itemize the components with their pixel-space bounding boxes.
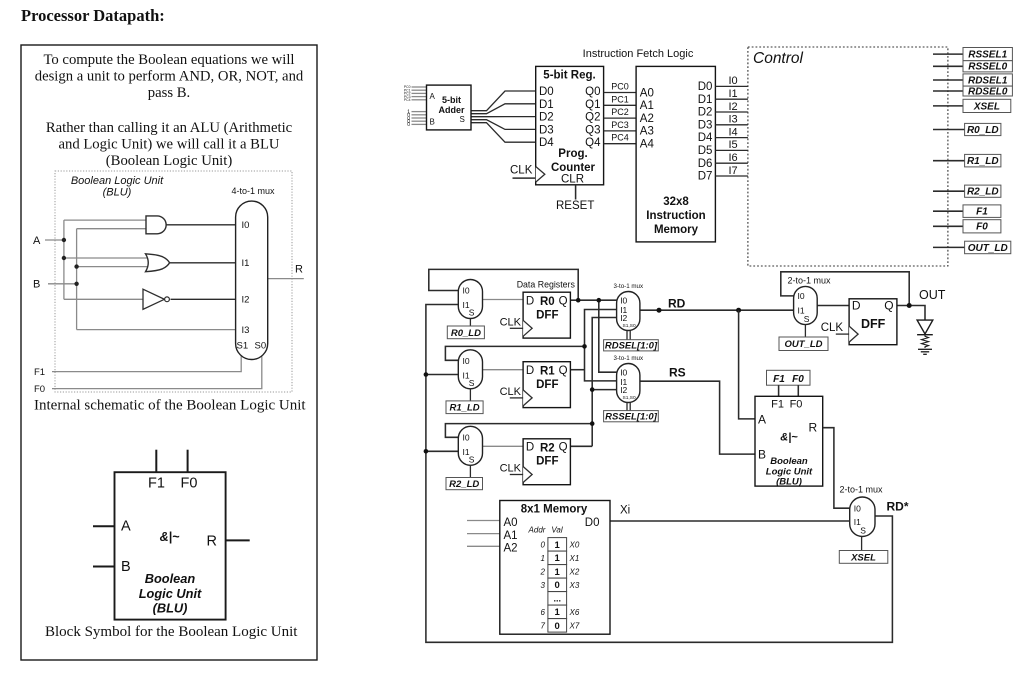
memory cell row 6 bbox=[548, 605, 567, 619]
wire R1 mux to D bbox=[483, 369, 524, 371]
node A junction bbox=[62, 238, 66, 242]
svg-text:6: 6 bbox=[541, 608, 546, 617]
Control dashed box bbox=[748, 47, 948, 266]
svg-text:RSSEL[1:0]: RSSEL[1:0] bbox=[605, 412, 658, 423]
svg-text:I2: I2 bbox=[242, 295, 250, 306]
svg-text:(BLU): (BLU) bbox=[103, 187, 132, 199]
svg-text:3-to-1 mux: 3-to-1 mux bbox=[614, 283, 644, 290]
svg-text:RD*: RD* bbox=[887, 500, 909, 514]
wire B input stub bbox=[48, 283, 77, 285]
wire RD* tap R2 bbox=[426, 450, 458, 452]
svg-text:2: 2 bbox=[540, 567, 546, 576]
RDSEL select double line bbox=[626, 331, 628, 340]
node B-OR junction bbox=[74, 264, 78, 268]
load-enable label XSEL bbox=[839, 551, 888, 564]
svg-text:S1,S0: S1,S0 bbox=[623, 323, 636, 329]
RESET stub bbox=[575, 185, 577, 200]
memory cell row 0 bbox=[548, 538, 567, 552]
svg-text:D1: D1 bbox=[539, 99, 554, 111]
F1 stub bbox=[155, 450, 157, 473]
svg-text:Counter: Counter bbox=[551, 162, 596, 174]
svg-text:(BLU): (BLU) bbox=[153, 601, 188, 616]
wire OUT mux to DFF D bbox=[817, 305, 849, 307]
svg-text:OUT: OUT bbox=[919, 288, 946, 302]
svg-text:S1,S0: S1,S0 bbox=[623, 395, 636, 401]
wire I3 pass-B bbox=[77, 329, 237, 331]
svg-text:D3: D3 bbox=[539, 124, 554, 136]
svg-text:I0: I0 bbox=[463, 286, 470, 296]
5-bit adder U-ADD bbox=[427, 85, 472, 130]
wire RS I2 tap bbox=[592, 389, 616, 391]
wire RS output bbox=[640, 381, 755, 454]
wire F1 select bbox=[52, 356, 241, 372]
load-enable label R0_LD bbox=[447, 326, 484, 339]
block symbol labels bbox=[121, 476, 217, 576]
svg-text:0: 0 bbox=[555, 621, 560, 632]
svg-text:X6: X6 bbox=[569, 608, 580, 617]
svg-text:X1: X1 bbox=[569, 554, 580, 563]
wire R1 feedback loop bbox=[445, 346, 584, 360]
B stub bbox=[93, 566, 115, 568]
F1 F0 stubs bbox=[778, 385, 780, 396]
8x1 Memory block bbox=[500, 501, 610, 635]
svg-text:I7: I7 bbox=[729, 165, 738, 177]
svg-text:PC4: PC4 bbox=[611, 133, 629, 143]
wire R1 bus vertical bbox=[585, 310, 617, 381]
svg-text:CLK: CLK bbox=[510, 165, 533, 177]
svg-text:Adder: Adder bbox=[438, 105, 465, 115]
svg-text:8x1 Memory: 8x1 Memory bbox=[521, 504, 588, 516]
svg-text:2-to-1 mux: 2-to-1 mux bbox=[787, 276, 831, 286]
2-to-1 mux for R0 bbox=[458, 280, 482, 319]
control signal F0 bbox=[933, 225, 963, 227]
D flip-flop R0 bbox=[523, 292, 570, 338]
svg-text:D2: D2 bbox=[698, 107, 713, 119]
wire NOT input bbox=[64, 298, 143, 300]
control signal F1 bbox=[933, 210, 963, 212]
svg-text:RDSEL0: RDSEL0 bbox=[968, 87, 1008, 98]
svg-text:To compute the Boolean equatio: To compute the Boolean equations we will bbox=[43, 52, 294, 68]
control signal XSEL bbox=[933, 105, 963, 107]
svg-text:RSSEL0: RSSEL0 bbox=[968, 62, 1007, 73]
control signal OUT_LD bbox=[933, 246, 965, 248]
svg-text:F1: F1 bbox=[771, 398, 784, 410]
svg-text:CLR: CLR bbox=[561, 174, 584, 186]
wire R0 bus down to RS I0 bbox=[599, 300, 617, 372]
svg-text:B: B bbox=[121, 559, 131, 575]
svg-text:CLK: CLK bbox=[821, 322, 844, 334]
wire Xi memory D0 to XSEL I1 bbox=[610, 520, 850, 522]
node R2 junctions bbox=[590, 421, 595, 426]
svg-text:Prog.: Prog. bbox=[558, 148, 587, 160]
PC wires Q to memory A bbox=[604, 93, 637, 144]
svg-text:I0: I0 bbox=[463, 356, 470, 366]
svg-text:A: A bbox=[121, 519, 131, 535]
svg-text:...: ... bbox=[553, 593, 561, 603]
svg-text:I5: I5 bbox=[729, 139, 738, 151]
D flip-flop R2 bbox=[523, 439, 570, 485]
node R1 junction bbox=[582, 344, 587, 349]
svg-text:DFF: DFF bbox=[536, 379, 558, 391]
node B junction bbox=[74, 282, 78, 286]
svg-text:R0: R0 bbox=[540, 296, 555, 308]
svg-text:CLK: CLK bbox=[500, 386, 522, 398]
svg-text:Data Registers: Data Registers bbox=[517, 280, 576, 290]
svg-text:Xi: Xi bbox=[620, 505, 630, 517]
ground bbox=[918, 348, 932, 350]
svg-text:I4: I4 bbox=[729, 126, 738, 138]
svg-text:D0: D0 bbox=[585, 517, 600, 529]
RSSEL select double line bbox=[626, 403, 628, 411]
svg-text:R1: R1 bbox=[540, 366, 555, 378]
svg-text:0: 0 bbox=[407, 122, 410, 128]
svg-text:D: D bbox=[526, 442, 534, 454]
wire OR output to I1 bbox=[170, 262, 237, 264]
svg-text:S: S bbox=[469, 308, 475, 318]
svg-text:(BLU): (BLU) bbox=[776, 477, 802, 488]
svg-text:3-to-1 mux: 3-to-1 mux bbox=[614, 355, 644, 362]
svg-text:(Boolean Logic Unit): (Boolean Logic Unit) bbox=[106, 153, 233, 169]
resistor zigzag bbox=[922, 335, 929, 348]
adder A input stubs bbox=[412, 87, 427, 100]
svg-text:I0: I0 bbox=[242, 220, 250, 231]
wire RD output bbox=[640, 309, 794, 311]
svg-text:I1: I1 bbox=[242, 258, 250, 269]
svg-text:design a unit to perform AND,: design a unit to perform AND, OR, NOT, a… bbox=[35, 69, 304, 85]
svg-text:Q: Q bbox=[559, 365, 568, 377]
control signal RSSEL1 bbox=[933, 53, 963, 55]
5-bit Reg / Prog Counter bbox=[536, 66, 604, 184]
svg-text:Boolean: Boolean bbox=[145, 571, 196, 586]
svg-text:Boolean Logic Unit: Boolean Logic Unit bbox=[71, 175, 164, 187]
svg-text:D2: D2 bbox=[539, 112, 554, 124]
svg-text:and Logic Unit) we will call i: and Logic Unit) we will call it a BLU bbox=[58, 137, 279, 153]
memory cell row 3 bbox=[548, 578, 567, 592]
wire RD* feedback bus bbox=[426, 305, 893, 643]
svg-text:F1: F1 bbox=[773, 374, 785, 385]
svg-text:B: B bbox=[758, 447, 766, 461]
paragraph 2 bbox=[46, 120, 293, 169]
svg-text:A: A bbox=[758, 412, 766, 426]
memory cell row 7 bbox=[548, 619, 567, 633]
D flip-flop R1 bbox=[523, 362, 570, 408]
wire BLU R to XSEL mux I0 bbox=[823, 428, 850, 509]
svg-text:XSEL: XSEL bbox=[973, 101, 1000, 112]
block symbol BLU box bbox=[115, 472, 226, 619]
svg-text:PC0: PC0 bbox=[611, 82, 629, 92]
svg-text:Val: Val bbox=[551, 526, 562, 535]
svg-text:D6: D6 bbox=[698, 158, 713, 170]
svg-text:X2: X2 bbox=[569, 567, 580, 576]
svg-text:I3: I3 bbox=[729, 114, 738, 126]
paragraph 1 bbox=[35, 52, 304, 101]
wire A input stub bbox=[45, 239, 64, 241]
load-enable label R1_LD bbox=[446, 401, 483, 414]
wire AND top input bbox=[64, 219, 146, 221]
svg-text:Q: Q bbox=[559, 442, 568, 454]
label Boolean Logic Unit (BLU) bbox=[71, 175, 164, 199]
svg-text:32x8: 32x8 bbox=[663, 196, 689, 208]
svg-text:F0: F0 bbox=[792, 374, 804, 385]
svg-text:1: 1 bbox=[555, 553, 561, 564]
svg-text:Rather than calling it an ALU: Rather than calling it an ALU (Arithmeti… bbox=[46, 120, 293, 136]
adder S output fan to register D inputs bbox=[471, 91, 536, 142]
svg-text:F0: F0 bbox=[790, 398, 803, 410]
XSEL stub bbox=[861, 537, 863, 551]
A stub bbox=[93, 525, 115, 527]
svg-text:D3: D3 bbox=[698, 119, 713, 131]
svg-text:S1: S1 bbox=[237, 341, 249, 352]
svg-text:7: 7 bbox=[541, 621, 546, 630]
wire F0 select bbox=[52, 356, 262, 388]
svg-text:S: S bbox=[804, 314, 810, 324]
svg-text:A1: A1 bbox=[504, 530, 518, 542]
svg-text:D0: D0 bbox=[539, 86, 554, 98]
svg-text:DFF: DFF bbox=[536, 456, 558, 468]
svg-text:Processor Datapath:: Processor Datapath: bbox=[21, 6, 165, 25]
memory cell row 2 bbox=[548, 565, 567, 579]
F1 F0 label box bbox=[767, 370, 811, 385]
svg-text:PC3: PC3 bbox=[611, 120, 629, 130]
svg-text:X3: X3 bbox=[569, 581, 580, 590]
node OUT junction bbox=[907, 303, 912, 308]
wire NOT output to I2 bbox=[171, 298, 238, 300]
control signal RDSEL1 bbox=[933, 79, 963, 81]
svg-text:RDSEL[1:0]: RDSEL[1:0] bbox=[605, 341, 658, 352]
memory cell row ellipsis bbox=[548, 592, 567, 606]
wire R2 Q to bus bbox=[570, 445, 592, 447]
load-enable label R2_LD bbox=[446, 478, 483, 490]
OR gate bbox=[146, 254, 170, 272]
svg-text:R1_LD: R1_LD bbox=[450, 403, 480, 414]
svg-text:R2: R2 bbox=[540, 442, 555, 454]
port labels A B R F1 F0 bbox=[33, 235, 303, 291]
svg-text:A: A bbox=[33, 235, 41, 247]
svg-text:4-to-1 mux: 4-to-1 mux bbox=[231, 186, 275, 196]
svg-text:I0: I0 bbox=[854, 503, 861, 513]
wire A vertical bus bbox=[63, 220, 65, 299]
svg-text:Logic Unit: Logic Unit bbox=[139, 586, 202, 601]
LED indicator bbox=[917, 320, 933, 334]
wire R0 feedback loop bbox=[429, 269, 578, 300]
svg-text:Instruction Fetch Logic: Instruction Fetch Logic bbox=[583, 48, 694, 60]
svg-text:A3: A3 bbox=[640, 126, 654, 138]
OUT_LD stub bbox=[804, 325, 806, 337]
svg-text:DFF: DFF bbox=[536, 310, 558, 322]
svg-text:A0: A0 bbox=[640, 87, 654, 99]
svg-text:&|~: &|~ bbox=[160, 530, 181, 544]
wire R2 mux to D bbox=[483, 445, 524, 447]
svg-text:Boolean: Boolean bbox=[770, 456, 808, 467]
svg-text:I0: I0 bbox=[798, 291, 805, 301]
svg-text:Q3: Q3 bbox=[585, 124, 600, 136]
svg-text:R0_LD: R0_LD bbox=[967, 125, 999, 136]
svg-text:Addr: Addr bbox=[528, 526, 546, 535]
control signal R1_LD bbox=[933, 160, 965, 162]
svg-text:F1: F1 bbox=[148, 476, 165, 492]
D flip-flop OUT bbox=[849, 299, 897, 345]
load-enable label OUT_LD bbox=[779, 337, 828, 351]
svg-text:F0: F0 bbox=[34, 384, 45, 395]
svg-text:I0: I0 bbox=[729, 75, 738, 87]
wire AND output to I0 bbox=[166, 224, 237, 226]
svg-text:R2_LD: R2_LD bbox=[967, 187, 999, 198]
wire OR bottom input bbox=[77, 266, 149, 268]
svg-text:R0_LD: R0_LD bbox=[451, 328, 481, 339]
node RD* taps bbox=[424, 372, 429, 377]
node A-OR junction bbox=[62, 256, 66, 260]
left panel frame bbox=[21, 45, 317, 660]
wire AND bottom input bbox=[77, 228, 146, 230]
svg-text:Control: Control bbox=[753, 50, 804, 67]
svg-text:I2: I2 bbox=[620, 313, 627, 323]
svg-text:X0: X0 bbox=[569, 540, 580, 549]
svg-text:B: B bbox=[33, 279, 40, 291]
svg-text:CLK: CLK bbox=[500, 463, 522, 475]
svg-text:pass B.: pass B. bbox=[148, 85, 190, 101]
wire R0 mux to D bbox=[483, 299, 524, 301]
control signal R2_LD bbox=[933, 190, 965, 192]
svg-text:D1: D1 bbox=[698, 94, 713, 106]
svg-text:S: S bbox=[460, 115, 465, 124]
svg-text:0: 0 bbox=[541, 540, 546, 549]
control signal R0_LD bbox=[933, 129, 965, 131]
svg-text:PC1: PC1 bbox=[611, 94, 629, 104]
control signal RSSEL0 bbox=[933, 65, 963, 67]
svg-text:F0: F0 bbox=[181, 476, 198, 492]
NOT gate bbox=[143, 289, 164, 309]
wire OUT feedback loop bbox=[781, 272, 909, 306]
svg-text:I1: I1 bbox=[729, 88, 738, 100]
svg-text:D4: D4 bbox=[539, 137, 554, 149]
svg-text:0: 0 bbox=[555, 580, 560, 591]
svg-text:Q: Q bbox=[559, 295, 568, 307]
svg-text:XSEL: XSEL bbox=[850, 552, 876, 563]
svg-text:Memory: Memory bbox=[654, 224, 699, 236]
svg-text:1: 1 bbox=[555, 607, 561, 618]
svg-text:I6: I6 bbox=[729, 152, 738, 164]
2-to-1 mux for R1 bbox=[458, 350, 482, 389]
svg-text:A: A bbox=[430, 92, 436, 101]
svg-text:1: 1 bbox=[541, 554, 545, 563]
svg-text:5-bit: 5-bit bbox=[442, 95, 461, 105]
svg-text:R: R bbox=[295, 264, 303, 276]
wire R1 Q to bus bbox=[570, 369, 584, 371]
R stub bbox=[226, 539, 250, 541]
svg-text:&|~: &|~ bbox=[780, 432, 798, 444]
wire R0 Q to RD mux I0 bbox=[570, 299, 616, 301]
svg-text:D7: D7 bbox=[698, 171, 713, 183]
svg-text:Internal schematic of the Bool: Internal schematic of the Boolean Logic … bbox=[34, 398, 306, 414]
svg-text:R: R bbox=[809, 421, 818, 435]
svg-text:I3: I3 bbox=[242, 325, 250, 336]
node RD dots bbox=[657, 308, 662, 313]
svg-text:CLK: CLK bbox=[500, 316, 522, 328]
svg-text:2-to-1 mux: 2-to-1 mux bbox=[839, 485, 883, 495]
svg-text:PC4: PC4 bbox=[404, 98, 411, 102]
AND gate bbox=[146, 216, 166, 234]
svg-text:F0: F0 bbox=[976, 222, 988, 233]
svg-text:F1: F1 bbox=[34, 367, 45, 378]
F0 stub bbox=[187, 450, 189, 473]
svg-text:RDSEL1: RDSEL1 bbox=[968, 75, 1008, 86]
svg-text:1: 1 bbox=[555, 567, 561, 578]
wire RD to BLU A bbox=[739, 310, 755, 419]
memory address input stubs bbox=[467, 521, 500, 547]
svg-text:R: R bbox=[207, 534, 217, 550]
4-to-1 mux body bbox=[236, 201, 268, 359]
wire R2 feedback loop bbox=[445, 424, 592, 438]
svg-text:I2: I2 bbox=[620, 385, 627, 395]
svg-text:OUT_LD: OUT_LD bbox=[968, 243, 1008, 254]
svg-text:S: S bbox=[469, 378, 475, 388]
svg-text:Q1: Q1 bbox=[585, 99, 600, 111]
svg-text:A1: A1 bbox=[640, 100, 654, 112]
svg-text:Q2: Q2 bbox=[585, 112, 600, 124]
svg-text:I2: I2 bbox=[729, 101, 738, 113]
svg-text:RSSEL1: RSSEL1 bbox=[968, 50, 1007, 61]
BLU block bbox=[755, 396, 823, 486]
svg-text:Instruction: Instruction bbox=[646, 210, 705, 222]
svg-text:RS: RS bbox=[669, 366, 686, 380]
wire R output of 4-to-1 mux bbox=[268, 278, 304, 280]
svg-text:X7: X7 bbox=[569, 621, 580, 630]
svg-text:PC2: PC2 bbox=[611, 107, 629, 117]
memory cell row 1 bbox=[548, 551, 567, 565]
svg-text:R2_LD: R2_LD bbox=[449, 479, 479, 490]
svg-text:I0: I0 bbox=[463, 432, 470, 442]
svg-text:DFF: DFF bbox=[861, 317, 886, 331]
svg-text:A4: A4 bbox=[640, 139, 655, 151]
node R0 junctions bbox=[576, 298, 581, 303]
2-to-1 mux for R2 bbox=[458, 426, 482, 465]
wire OUT Q to LED bbox=[897, 306, 925, 321]
svg-text:A2: A2 bbox=[504, 543, 518, 555]
svg-text:A2: A2 bbox=[640, 113, 654, 125]
svg-text:S: S bbox=[860, 526, 866, 536]
wire OR top input bbox=[64, 257, 149, 259]
load-enable label RDSEL[1:0] bbox=[604, 340, 659, 351]
instruction wires D to control, labels I0-I7 bbox=[715, 86, 748, 176]
svg-text:D: D bbox=[526, 365, 534, 377]
svg-text:Q0: Q0 bbox=[585, 86, 600, 98]
svg-text:5-bit Reg.: 5-bit Reg. bbox=[543, 70, 595, 82]
svg-text:R1_LD: R1_LD bbox=[967, 156, 999, 167]
svg-text:S0: S0 bbox=[255, 341, 267, 352]
svg-text:S: S bbox=[469, 454, 475, 464]
wire R2 bus vertical bbox=[592, 318, 616, 447]
svg-text:A0: A0 bbox=[504, 517, 518, 529]
32x8 Instruction Memory bbox=[636, 66, 715, 242]
adder B input stubs bbox=[412, 112, 427, 125]
svg-text:F1: F1 bbox=[976, 207, 988, 218]
svg-text:D: D bbox=[526, 295, 534, 307]
load-enable label RSSEL[1:0] bbox=[604, 411, 659, 422]
svg-text:1: 1 bbox=[555, 540, 561, 551]
svg-text:D: D bbox=[852, 299, 861, 313]
prog counter clock pin bbox=[536, 167, 545, 183]
svg-text:3: 3 bbox=[541, 581, 546, 590]
svg-text:D5: D5 bbox=[698, 145, 713, 157]
svg-text:D0: D0 bbox=[698, 81, 713, 93]
svg-text:RESET: RESET bbox=[556, 200, 594, 212]
svg-text:OUT_LD: OUT_LD bbox=[785, 339, 823, 350]
svg-text:D4: D4 bbox=[698, 132, 713, 144]
control signal RDSEL0 bbox=[933, 90, 963, 92]
wire RD* tap R1 bbox=[426, 374, 458, 376]
svg-text:Q: Q bbox=[884, 299, 893, 313]
BLU internal schematic dotted frame bbox=[55, 171, 292, 392]
